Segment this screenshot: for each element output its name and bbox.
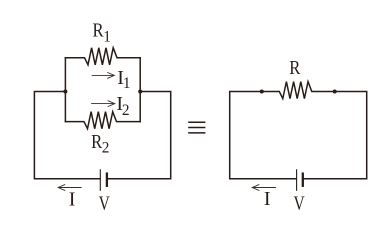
svg-text:V: V (99, 192, 111, 214)
battery V (left) short plate (106, 174, 108, 186)
resistor R1 (65, 48, 140, 65)
equivalence symbol (188, 122, 205, 133)
svg-text:I: I (264, 188, 271, 210)
node right circuit left (260, 90, 264, 94)
resistor R (262, 82, 335, 99)
battery V (right) long plate (296, 170, 298, 191)
svg-text:1: 1 (103, 29, 111, 46)
right circuit outer loop right side (304, 92, 367, 179)
wire inner parallel left vertical (64, 58, 66, 122)
resistor R2 (65, 112, 140, 129)
wire inner parallel right vertical (139, 58, 141, 122)
current arrow I (right) (252, 185, 276, 191)
node right junction (138, 90, 142, 94)
current arrow I2 (92, 101, 115, 107)
battery V (right) short plate (302, 174, 304, 186)
wire left outer loop (34, 92, 100, 179)
svg-text:V: V (294, 192, 306, 214)
current arrow I (left) (58, 185, 81, 191)
current arrow I1 (92, 73, 114, 79)
battery V (left) long plate (99, 170, 101, 191)
node right circuit right (333, 90, 337, 94)
svg-text:1: 1 (123, 75, 131, 92)
svg-text:2: 2 (122, 102, 130, 119)
node left junction (63, 90, 67, 94)
svg-text:R: R (289, 57, 301, 79)
svg-text:2: 2 (102, 139, 110, 156)
wire left outer loop right side (108, 92, 171, 179)
svg-text:I: I (69, 188, 76, 210)
right circuit outer loop (230, 92, 297, 179)
